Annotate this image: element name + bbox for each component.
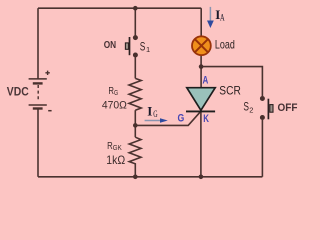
svg-text:G: G — [153, 109, 158, 119]
svg-text:G: G — [114, 88, 118, 97]
svg-text:GK: GK — [113, 143, 122, 152]
svg-text:S: S — [140, 42, 146, 54]
svg-text:K: K — [203, 113, 209, 125]
svg-text:A: A — [203, 75, 209, 87]
svg-text:2: 2 — [249, 105, 253, 114]
svg-text:470Ω: 470Ω — [102, 99, 127, 111]
svg-text:1kΩ: 1kΩ — [106, 153, 125, 167]
svg-text:1: 1 — [146, 45, 150, 54]
svg-text:I: I — [147, 104, 152, 119]
svg-text:VDC: VDC — [7, 87, 29, 99]
svg-text:SCR: SCR — [219, 85, 241, 97]
svg-text:G: G — [178, 113, 185, 125]
svg-text:ON: ON — [104, 39, 116, 51]
svg-text:Load: Load — [215, 37, 235, 51]
svg-text:OFF: OFF — [278, 102, 298, 114]
svg-text:A: A — [220, 13, 225, 23]
